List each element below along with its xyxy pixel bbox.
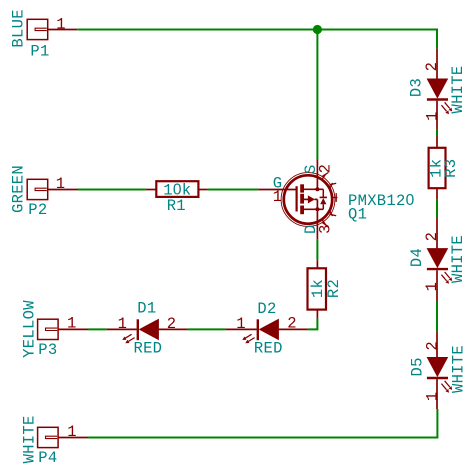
svg-text:P3: P3	[38, 341, 57, 359]
wire top P1 to right column	[77, 30, 437, 49]
channel segments	[300, 184, 304, 192]
D pin	[316, 209, 318, 239]
svg-text:1: 1	[423, 282, 441, 292]
wire bottom P4 to right column	[88, 409, 437, 438]
wire R1 to Q1 G	[208, 189, 259, 191]
svg-text:R1: R1	[167, 197, 186, 215]
LED D5	[427, 332, 452, 409]
wire D3 to R3	[436, 129, 438, 136]
svg-text:Q1: Q1	[348, 206, 367, 224]
svg-text:R3: R3	[442, 159, 460, 178]
LED D2	[225, 319, 307, 343]
transistor Q1	[258, 160, 337, 240]
wire R3 to D4	[436, 200, 438, 218]
svg-text:GREEN: GREEN	[10, 165, 28, 213]
wire D4 to D5	[436, 301, 438, 332]
svg-text:1: 1	[273, 188, 283, 206]
svg-text:WHITE: WHITE	[450, 345, 468, 393]
svg-text:D4: D4	[408, 248, 426, 267]
wire Q1 D to R2	[316, 239, 318, 260]
junction top	[313, 25, 322, 34]
svg-text:1: 1	[118, 315, 128, 333]
svg-text:P4: P4	[38, 449, 57, 467]
svg-text:WHITE: WHITE	[449, 65, 467, 113]
S pin	[316, 160, 318, 190]
resistor R3	[429, 136, 446, 200]
svg-text:2: 2	[423, 62, 441, 72]
body diode	[322, 189, 324, 197]
wire P3 to D1	[88, 328, 107, 330]
LED D1	[107, 319, 187, 343]
svg-text:1: 1	[67, 315, 77, 333]
connector P2	[27, 179, 78, 199]
svg-text:RED: RED	[133, 340, 162, 358]
stub pins	[322, 173, 338, 227]
svg-text:1: 1	[424, 391, 442, 401]
svg-text:1: 1	[424, 111, 442, 121]
svg-text:WHITE: WHITE	[21, 415, 39, 463]
svg-text:2: 2	[167, 315, 177, 333]
svg-text:BLUE: BLUE	[10, 9, 28, 47]
svg-text:2: 2	[423, 232, 441, 242]
svg-text:2: 2	[287, 315, 297, 333]
wire P2 to R1	[78, 189, 146, 191]
middle arrow	[304, 198, 308, 200]
svg-text:P2: P2	[28, 201, 47, 219]
LED D3	[427, 49, 452, 130]
svg-text:1: 1	[236, 315, 246, 333]
svg-text:D1: D1	[137, 300, 156, 318]
wire D1 to D2	[187, 328, 225, 330]
wire R2 to D2 node	[308, 318, 318, 329]
svg-text:RED: RED	[254, 340, 283, 358]
svg-text:YELLOW: YELLOW	[21, 300, 39, 358]
svg-text:R2: R2	[325, 279, 343, 298]
bottom internal line	[304, 208, 324, 210]
svg-text:D5: D5	[409, 357, 427, 376]
svg-text:P1: P1	[30, 43, 49, 61]
gate pin	[258, 189, 295, 191]
connector P1	[27, 19, 77, 39]
top internal line	[304, 188, 324, 190]
svg-text:1: 1	[67, 423, 77, 441]
resistor R1	[146, 181, 208, 197]
svg-text:WHITE: WHITE	[449, 235, 467, 283]
svg-text:D3: D3	[408, 78, 426, 97]
connector P3	[38, 319, 88, 339]
svg-text:2: 2	[424, 341, 442, 351]
svg-text:3: 3	[316, 224, 334, 234]
connector P4	[38, 427, 88, 447]
gate bar	[296, 186, 298, 211]
wire junction down to Q1 S	[316, 30, 318, 160]
svg-text:1: 1	[56, 175, 66, 193]
svg-text:1: 1	[56, 15, 66, 33]
LED D4	[427, 218, 452, 301]
svg-text:2: 2	[317, 164, 335, 174]
resistor R2	[308, 260, 327, 318]
svg-text:D2: D2	[257, 300, 276, 318]
